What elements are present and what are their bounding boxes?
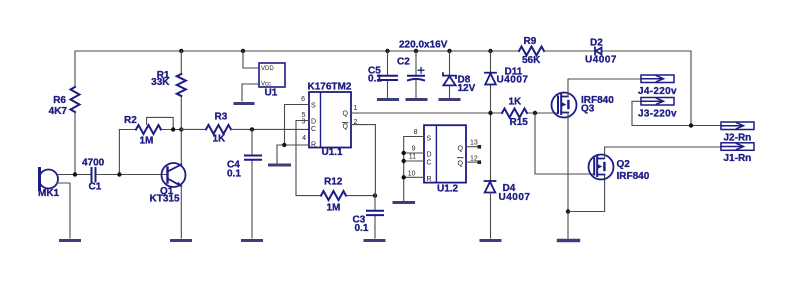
junction Q3/Q2 source node xyxy=(566,209,570,213)
transistor Q1 KT315 xyxy=(162,163,186,187)
svg-text:R12: R12 xyxy=(324,177,343,188)
wire Q2 source to Q3 source node xyxy=(568,175,605,212)
junction Q1 collector node xyxy=(179,127,183,131)
wire MK1 output to C1 xyxy=(58,174,91,176)
IC U1.1 K176TM2 xyxy=(309,92,351,148)
svg-text:D2: D2 xyxy=(590,38,603,49)
svg-text:U1.1: U1.1 xyxy=(322,147,344,158)
connector J1-Rn xyxy=(721,143,754,151)
wire Q3 drain up and to J4 xyxy=(568,79,641,97)
svg-text:U4007: U4007 xyxy=(499,192,531,203)
ground under C4 xyxy=(243,239,262,242)
diode D2 xyxy=(595,48,602,55)
svg-text:3: 3 xyxy=(302,119,306,126)
svg-text:0.1: 0.1 xyxy=(368,74,382,85)
junction U1.1 S/R ground node xyxy=(282,143,286,147)
resistor R3 xyxy=(206,125,231,134)
svg-text:VDD: VDD xyxy=(261,66,274,72)
resistor R12 xyxy=(321,191,346,200)
svg-text:220.0x16V: 220.0x16V xyxy=(399,40,448,51)
svg-text:8: 8 xyxy=(414,129,418,136)
svg-text:R15: R15 xyxy=(510,117,529,128)
svg-text:4700: 4700 xyxy=(82,158,105,169)
wire C1 to Q1 base xyxy=(97,174,168,176)
wire collector node to R3 xyxy=(181,128,206,130)
svg-text:10: 10 xyxy=(408,171,416,178)
wire U1.1 Q pin1 output run to gate resistor xyxy=(351,112,558,114)
junction rail/R1 xyxy=(179,49,183,53)
junction rail/D8 xyxy=(447,49,451,53)
wire U1.2 Qbar pin12 NC xyxy=(466,161,478,163)
junction rail/C5 xyxy=(385,49,389,53)
junction R12/C3/Q-bar node xyxy=(373,193,377,197)
svg-text:U1.2: U1.2 xyxy=(437,184,459,195)
svg-text:4: 4 xyxy=(302,135,306,142)
svg-text:R: R xyxy=(311,142,316,149)
resistor R15 xyxy=(502,109,527,118)
wire U1.1 D pin down to R12 xyxy=(296,121,321,196)
connector J2-Rn xyxy=(721,122,754,130)
svg-text:0.1: 0.1 xyxy=(355,223,369,234)
ground under U1 xyxy=(235,102,253,105)
wire U1.2 input bus to ground xyxy=(404,137,424,201)
svg-text:9: 9 xyxy=(412,146,416,153)
svg-text:1M: 1M xyxy=(140,136,154,147)
svg-text:R2: R2 xyxy=(124,115,137,126)
svg-text:R: R xyxy=(427,176,432,183)
wire gate node down to Q2 gate xyxy=(535,113,594,174)
wire Q1 emitter to ground xyxy=(180,186,182,238)
svg-text:1K: 1K xyxy=(213,134,227,145)
junction rail/D11 xyxy=(488,49,492,53)
junction R6/MK1/C1 node xyxy=(73,172,77,176)
resistor R2 (1M, with wiper strap) xyxy=(136,125,161,134)
svg-text:J1-Rn: J1-Rn xyxy=(724,153,752,164)
svg-text:56K: 56K xyxy=(522,55,541,66)
svg-text:C: C xyxy=(427,160,432,167)
svg-text:0.1: 0.1 xyxy=(227,169,241,180)
ground under U1.2 xyxy=(394,201,414,204)
svg-text:MK1: MK1 xyxy=(38,188,60,199)
junction rail/U1 VDD xyxy=(241,49,245,53)
wire base node to R2 xyxy=(119,129,181,131)
svg-text:C1: C1 xyxy=(89,182,102,193)
svg-text:K176TM2: K176TM2 xyxy=(308,82,352,93)
svg-text:1: 1 xyxy=(354,105,358,112)
resistor R6 xyxy=(71,87,80,112)
wire right rail drop xyxy=(632,51,721,126)
wire R3 to U1.1 pin C xyxy=(231,128,309,130)
svg-text:Q: Q xyxy=(458,161,464,168)
svg-text:13: 13 xyxy=(470,140,478,147)
svg-text:R3: R3 xyxy=(215,112,228,123)
svg-text:J2-Rn: J2-Rn xyxy=(724,133,752,144)
svg-text:1M: 1M xyxy=(327,203,341,214)
wire U1.1 S jog to R and ground xyxy=(277,105,309,164)
MOSFET Q2 IRF840 xyxy=(589,155,614,180)
wire R12 to C3 node xyxy=(347,195,375,197)
wire left drop to R6 and MK1 xyxy=(74,51,76,175)
ground under U1.1 S/R xyxy=(270,164,290,167)
ground under C3 xyxy=(365,239,384,242)
svg-text:4K7: 4K7 xyxy=(49,106,68,117)
junction R2 right node xyxy=(171,127,175,131)
svg-text:Q: Q xyxy=(458,146,464,153)
svg-text:IRF840: IRF840 xyxy=(617,171,650,182)
svg-text:KT315: KT315 xyxy=(150,194,180,205)
svg-text:S: S xyxy=(311,103,316,110)
ground under D4 xyxy=(481,239,500,242)
wire MK1 to ground xyxy=(57,183,70,238)
wire Q2 drain up and to J1 xyxy=(605,147,721,159)
svg-text:1K: 1K xyxy=(509,97,523,108)
junction C4 tap xyxy=(250,127,254,131)
svg-text:D: D xyxy=(311,119,316,126)
wire top supply rail xyxy=(75,50,691,52)
svg-text:U1: U1 xyxy=(265,88,278,99)
svg-text:D: D xyxy=(427,152,432,159)
resistor R9 xyxy=(519,47,544,56)
ground under Q1 xyxy=(172,239,191,242)
svg-text:6: 6 xyxy=(301,96,305,103)
svg-text:Q: Q xyxy=(343,124,349,131)
capacitor C1 xyxy=(92,168,96,182)
wire U1.2 Q pin13 NC xyxy=(466,146,478,148)
connector J3-220v xyxy=(641,98,674,106)
microphone MK1 xyxy=(39,169,58,190)
svg-text:U4007: U4007 xyxy=(497,75,529,86)
ground under D8 xyxy=(440,98,459,101)
capacitor C3 xyxy=(374,196,376,238)
svg-text:11: 11 xyxy=(409,154,416,161)
ground under C2 xyxy=(407,98,426,101)
svg-text:Q2: Q2 xyxy=(617,159,631,170)
MOSFET Q3 IRF840 xyxy=(552,93,577,118)
ground under Q3/Q2 xyxy=(559,239,579,242)
diode D4 xyxy=(485,181,496,193)
junction D11/D4/R15 node xyxy=(488,111,492,115)
svg-text:33K: 33K xyxy=(151,77,170,88)
IC U1.2 second flip-flop xyxy=(424,125,466,182)
junction U1.2 C pin bus xyxy=(402,159,406,163)
junction rail drop to J2/J3 xyxy=(689,123,693,127)
wire Q3 source down to ground xyxy=(567,113,569,239)
svg-text:Q: Q xyxy=(343,111,349,118)
wire U1.1 Q-bar pin2 down to C3 node xyxy=(351,125,375,196)
svg-text:R9: R9 xyxy=(524,36,537,47)
svg-text:12V: 12V xyxy=(458,83,476,94)
svg-text:C: C xyxy=(311,126,316,133)
capacitor C4 xyxy=(251,129,253,238)
svg-text:12: 12 xyxy=(470,156,478,163)
ground under MK1 xyxy=(61,239,80,242)
connector J4-220v xyxy=(641,75,674,83)
svg-text:C2: C2 xyxy=(397,57,410,68)
node base: riser to R2 line xyxy=(118,130,120,175)
svg-text:J3-220v: J3-220v xyxy=(638,109,677,120)
junction rail/C2 xyxy=(414,49,418,53)
svg-text:U4007: U4007 xyxy=(585,55,617,66)
ground under C5 xyxy=(379,98,398,101)
svg-text:Q3: Q3 xyxy=(581,104,595,115)
junction Q1 base node xyxy=(117,172,121,176)
svg-text:J4-220v: J4-220v xyxy=(638,86,677,97)
svg-text:R6: R6 xyxy=(53,95,66,106)
svg-text:S: S xyxy=(427,136,432,143)
junction U1.2 D pin bus xyxy=(402,151,406,155)
junction gate node Q3/Q2 xyxy=(533,111,537,115)
junction U1.2 R pin bus xyxy=(402,175,406,179)
